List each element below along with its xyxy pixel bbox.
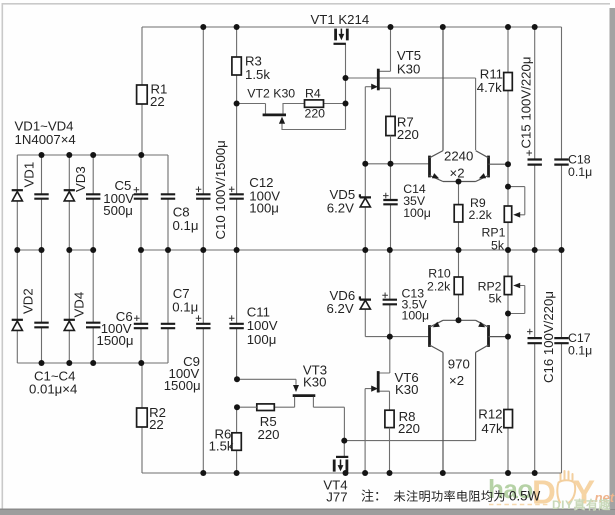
junction bottom rail / R12: [505, 470, 511, 476]
capacitor C4: [86, 250, 100, 363]
label R4 220: [305, 86, 326, 120]
junction bridge top / R1-C5: [138, 152, 144, 158]
svg-text:注：: 注：: [361, 489, 387, 504]
junction ground / C8-C7: [165, 247, 171, 253]
svg-text:VD4: VD4: [72, 292, 87, 318]
junction 970 emitters: [456, 317, 462, 323]
label C9 100V 1500μ: [164, 354, 201, 393]
junction bottom rail / VT4: [343, 470, 349, 476]
svg-text:×2: ×2: [450, 165, 465, 180]
label VD4: [72, 292, 87, 318]
svg-text:970: 970: [448, 356, 470, 371]
junction RP1 wiper tie: [505, 184, 511, 190]
capacitor C15: [526, 27, 542, 250]
junction bottom rail / C16: [532, 470, 538, 476]
svg-text:R4: R4: [305, 86, 321, 100]
transistor VT3: [237, 379, 344, 440]
svg-text:1.5k: 1.5k: [209, 439, 234, 454]
wire bridge bottom: [17, 329, 168, 474]
label R6 1.5k: [209, 426, 234, 453]
label R9 2.2k: [469, 196, 493, 222]
svg-text:6.2V: 6.2V: [327, 301, 354, 316]
capacitor C17: [554, 250, 568, 473]
svg-text:100μ: 100μ: [247, 332, 277, 347]
label VD1~VD4: [15, 119, 76, 148]
junction ground / C14-C13: [387, 247, 393, 253]
junction bottom rail / R6: [234, 470, 240, 476]
svg-text:0.5W: 0.5W: [509, 489, 541, 504]
svg-text:DIY真有趣: DIY真有趣: [552, 497, 612, 512]
svg-text:6.2V: 6.2V: [327, 201, 354, 216]
junction 2240 emitters: [456, 179, 462, 185]
capacitor C16: [527, 250, 542, 473]
label R8 220: [398, 409, 420, 436]
junction ground / C10-C9: [200, 247, 206, 253]
junction R4-VT2 node: [343, 101, 349, 107]
junction top rail / VT5 drain: [388, 24, 394, 30]
page border top: [3, 3, 610, 5]
junction bridge bottom / VD4: [66, 360, 72, 366]
svg-text:22: 22: [149, 417, 164, 432]
label VT6 K30: [395, 370, 419, 397]
svg-text:VD3: VD3: [73, 166, 88, 192]
transistor pair 2240 right: [459, 151, 509, 182]
svg-text:VT1 K214: VT1 K214: [311, 12, 370, 27]
svg-text:5k: 5k: [491, 238, 505, 252]
svg-text:C15 100V/220μ: C15 100V/220μ: [519, 57, 534, 149]
label C17 0.1μ: [568, 331, 592, 357]
svg-text:220: 220: [398, 421, 420, 436]
label C16 100V/220μ: [541, 291, 556, 383]
junction C13 / VT6: [387, 334, 393, 340]
transistor pair 970 left: [430, 320, 459, 473]
junction RP2 wiper tie: [505, 311, 511, 317]
resistor R8: [385, 410, 394, 473]
svg-text:0.1μ: 0.1μ: [568, 165, 592, 179]
label RP2 5k: [478, 279, 503, 305]
zener VD5: [360, 164, 371, 250]
label VT1 K214: [311, 12, 370, 27]
svg-text:220: 220: [258, 427, 280, 442]
svg-text:47k: 47k: [481, 421, 503, 436]
label VD5 6.2V: [327, 187, 355, 216]
wire ground rail: [141, 249, 562, 251]
svg-text:VT2 K30: VT2 K30: [247, 86, 295, 100]
label C8 0.1μ: [173, 205, 199, 234]
junction top rail / C10: [200, 24, 206, 30]
svg-text:未注明功率电阻均为: 未注明功率电阻均为: [394, 489, 506, 504]
diode VD4: [64, 250, 75, 363]
transistor pair 2240 left: [430, 27, 459, 182]
svg-text:R12: R12: [478, 407, 502, 422]
label VD3: [73, 166, 88, 192]
resistor R6: [232, 407, 241, 473]
label C11 100V 100μ: [247, 304, 278, 347]
svg-text:K30: K30: [397, 62, 420, 77]
label C10 100V/1500μ: [213, 140, 228, 239]
junction ground / C12-C11: [234, 247, 240, 253]
page border left: [2, 3, 4, 509]
capacitor C18: [554, 27, 568, 250]
label VT4 J77: [323, 478, 347, 505]
svg-text:22: 22: [150, 94, 165, 109]
label VD2: [21, 288, 36, 314]
label R12 47k: [478, 407, 503, 436]
svg-text:R11: R11: [480, 66, 503, 81]
junction bottom rail / 970 collector: [440, 470, 446, 476]
svg-text:220: 220: [397, 127, 419, 142]
junction bottom rail / R8: [387, 470, 393, 476]
label R10 2.2k: [427, 266, 451, 293]
svg-text:0.1μ: 0.1μ: [172, 299, 198, 314]
junction ground / RP1-RP2: [505, 247, 511, 253]
label C15 100V/220μ: [519, 57, 534, 149]
resistor R1: [137, 85, 148, 104]
capacitor C10: [196, 27, 211, 250]
label C5 100V 500μ: [103, 178, 134, 218]
junction VT1 drain node: [343, 75, 349, 81]
svg-text:1500μ: 1500μ: [164, 378, 201, 393]
potentiometer RP1: [504, 164, 525, 250]
junction VD5 / 2240 base: [362, 161, 368, 167]
capacitor C1: [34, 155, 48, 250]
resistor R5: [237, 404, 274, 411]
junction top rail / R11: [505, 24, 511, 30]
svg-text:K30: K30: [395, 382, 418, 397]
resistor R3: [232, 27, 241, 104]
junction AC node B / C3: [90, 247, 96, 253]
svg-text:VD1: VD1: [21, 162, 36, 188]
resistor R9: [454, 182, 463, 251]
svg-text:J77: J77: [326, 490, 347, 505]
resistor R12: [504, 337, 513, 473]
svg-text:2240: 2240: [444, 149, 473, 164]
wire top +V rail: [142, 26, 562, 28]
resistor R2: [137, 408, 148, 427]
transistor pair 970 right: [459, 320, 509, 440]
transistor VT6: [365, 337, 390, 473]
junction ground / C5-C6: [138, 247, 144, 253]
junction bottom rail / C9: [200, 470, 206, 476]
svg-text:C16 100V/220μ: C16 100V/220μ: [541, 291, 556, 383]
note text: [361, 489, 541, 504]
wire AC node B: [69, 249, 93, 251]
label C7 0.1μ: [172, 286, 198, 314]
transistor VT5: [365, 27, 390, 116]
capacitor C13: [382, 250, 397, 337]
junction 970 right base / R12: [505, 334, 511, 340]
capacitor C14: [383, 164, 398, 250]
wire VT5 gate column: [364, 87, 366, 164]
diode VD3: [64, 155, 75, 250]
junction top rail / R3: [234, 24, 240, 30]
junction R5 / R6: [234, 404, 240, 410]
svg-text:VD2: VD2: [21, 288, 36, 314]
label C6 100V 1500μ: [97, 309, 134, 348]
svg-text:0.01μ×4: 0.01μ×4: [29, 382, 77, 397]
zener VD6: [360, 250, 371, 337]
junction 2240 right base / R11: [505, 161, 511, 167]
junction bridge bottom / C2: [39, 360, 45, 366]
label C1~C4: [29, 369, 77, 397]
potentiometer RP2: [504, 250, 525, 337]
svg-text:1.5k: 1.5k: [245, 67, 270, 82]
junction bottom rail / VT6 gate: [362, 470, 368, 476]
resistor R7: [386, 116, 395, 163]
capacitor C8: [161, 194, 175, 250]
capacitor C9: [196, 250, 211, 473]
capacitor C12: [229, 104, 244, 251]
svg-text:100μ: 100μ: [249, 201, 279, 216]
junction VT3 gate node: [234, 376, 240, 382]
junction bridge bottom / C4: [90, 360, 96, 366]
wire VAS node to 2240 collector: [346, 78, 476, 150]
capacitor C11: [229, 250, 244, 379]
label VD1: [21, 162, 36, 188]
wire VT1 drain node: [345, 45, 347, 104]
label R3 1.5k: [245, 54, 270, 82]
label C14 35V 100μ: [403, 182, 431, 220]
label C18 0.1μ: [568, 153, 592, 179]
svg-text:100V: 100V: [247, 318, 278, 333]
junction AC node A / VD1: [14, 247, 20, 253]
svg-text:K30: K30: [303, 375, 326, 390]
label R5 220: [258, 414, 280, 442]
junction bridge top / VD3: [66, 152, 72, 158]
resistor R11: [504, 27, 513, 164]
junction ground / VD5-VD6: [362, 247, 368, 253]
page shadow right: [610, 8, 615, 509]
svg-text:1500μ: 1500μ: [97, 333, 134, 348]
junction top rail / C15: [532, 24, 538, 30]
junction AC node A / C1: [39, 247, 45, 253]
label R7 220: [397, 115, 419, 142]
wire bottom -V rail: [142, 472, 562, 474]
label 970 ×2: [448, 356, 470, 388]
junction VT2 gate node: [234, 101, 240, 107]
diode VD1: [12, 155, 23, 250]
svg-text:C10 100V/1500μ: C10 100V/1500μ: [213, 140, 228, 239]
svg-text:500μ: 500μ: [103, 203, 133, 218]
junction top rail / 2240 collector: [440, 24, 446, 30]
junction bridge bottom / C6-R2: [138, 360, 144, 366]
capacitor C3: [86, 155, 100, 250]
wire VT4 gate node: [344, 441, 475, 456]
wire 970 base node: [365, 336, 429, 338]
capacitor C7: [161, 250, 175, 328]
svg-text:220: 220: [305, 107, 326, 121]
resistor R10: [454, 250, 463, 320]
svg-text:0.1μ: 0.1μ: [568, 343, 592, 357]
wire 2240 base node: [365, 163, 429, 165]
junction VT4 gate node: [341, 438, 347, 444]
label R2 22: [149, 405, 166, 432]
resistor R4: [305, 100, 324, 107]
svg-text:0.1μ: 0.1μ: [173, 218, 199, 233]
junction ground / R9-R10: [456, 247, 462, 253]
wire AC node A: [17, 249, 41, 251]
capacitor C5: [134, 155, 149, 250]
label RP1 5k: [482, 226, 506, 253]
svg-text:1N4007×4: 1N4007×4: [15, 132, 76, 147]
label VT3 K30: [303, 362, 327, 389]
label VT2 K30: [247, 86, 295, 100]
junction AC node B / VD3: [66, 247, 72, 253]
wire bridge top: [17, 27, 168, 194]
svg-text:2.2k: 2.2k: [427, 279, 451, 293]
watermark haoDIY.net: [488, 471, 615, 512]
label R11 4.7k: [477, 66, 503, 95]
transistor VT1: [334, 29, 348, 44]
label VT5 K30: [397, 48, 421, 77]
label C12 100V 100μ: [249, 175, 280, 216]
capacitor C6: [134, 250, 148, 363]
junction ground / C18-C17: [559, 247, 565, 253]
transistor VT4: [334, 457, 348, 472]
label R1 22: [150, 81, 167, 109]
svg-text:100μ: 100μ: [402, 308, 430, 322]
svg-text:R10: R10: [428, 266, 451, 280]
label VD6 6.2V: [327, 288, 356, 316]
junction bridge top / C1: [39, 152, 45, 158]
diode VD2: [12, 250, 23, 363]
junction bridge top / C3: [90, 152, 96, 158]
label C13 3.5V 100μ: [402, 286, 430, 322]
transistor VT2: [237, 104, 346, 130]
svg-text:5k: 5k: [489, 291, 503, 305]
svg-text:2.2k: 2.2k: [469, 208, 493, 222]
svg-text:100μ: 100μ: [403, 206, 431, 220]
label 2240 ×2: [444, 149, 473, 181]
capacitor C2: [34, 250, 48, 363]
svg-text:4.7k: 4.7k: [477, 80, 502, 95]
junction ground / C15-C16: [532, 247, 538, 253]
page shadow bottom: [0, 509, 615, 515]
junction R7 / C14: [388, 161, 394, 167]
svg-text:×2: ×2: [449, 373, 464, 388]
